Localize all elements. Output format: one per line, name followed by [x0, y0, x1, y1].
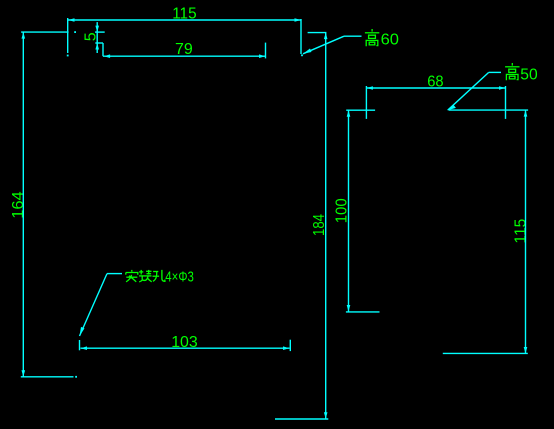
- svg-text:60: 60: [381, 32, 400, 49]
- svg-text:79: 79: [175, 41, 193, 58]
- svg-text:164: 164: [10, 191, 27, 219]
- svg-text:115: 115: [513, 219, 530, 244]
- svg-text:50: 50: [520, 67, 537, 84]
- svg-text:4×Φ3: 4×Φ3: [165, 269, 194, 286]
